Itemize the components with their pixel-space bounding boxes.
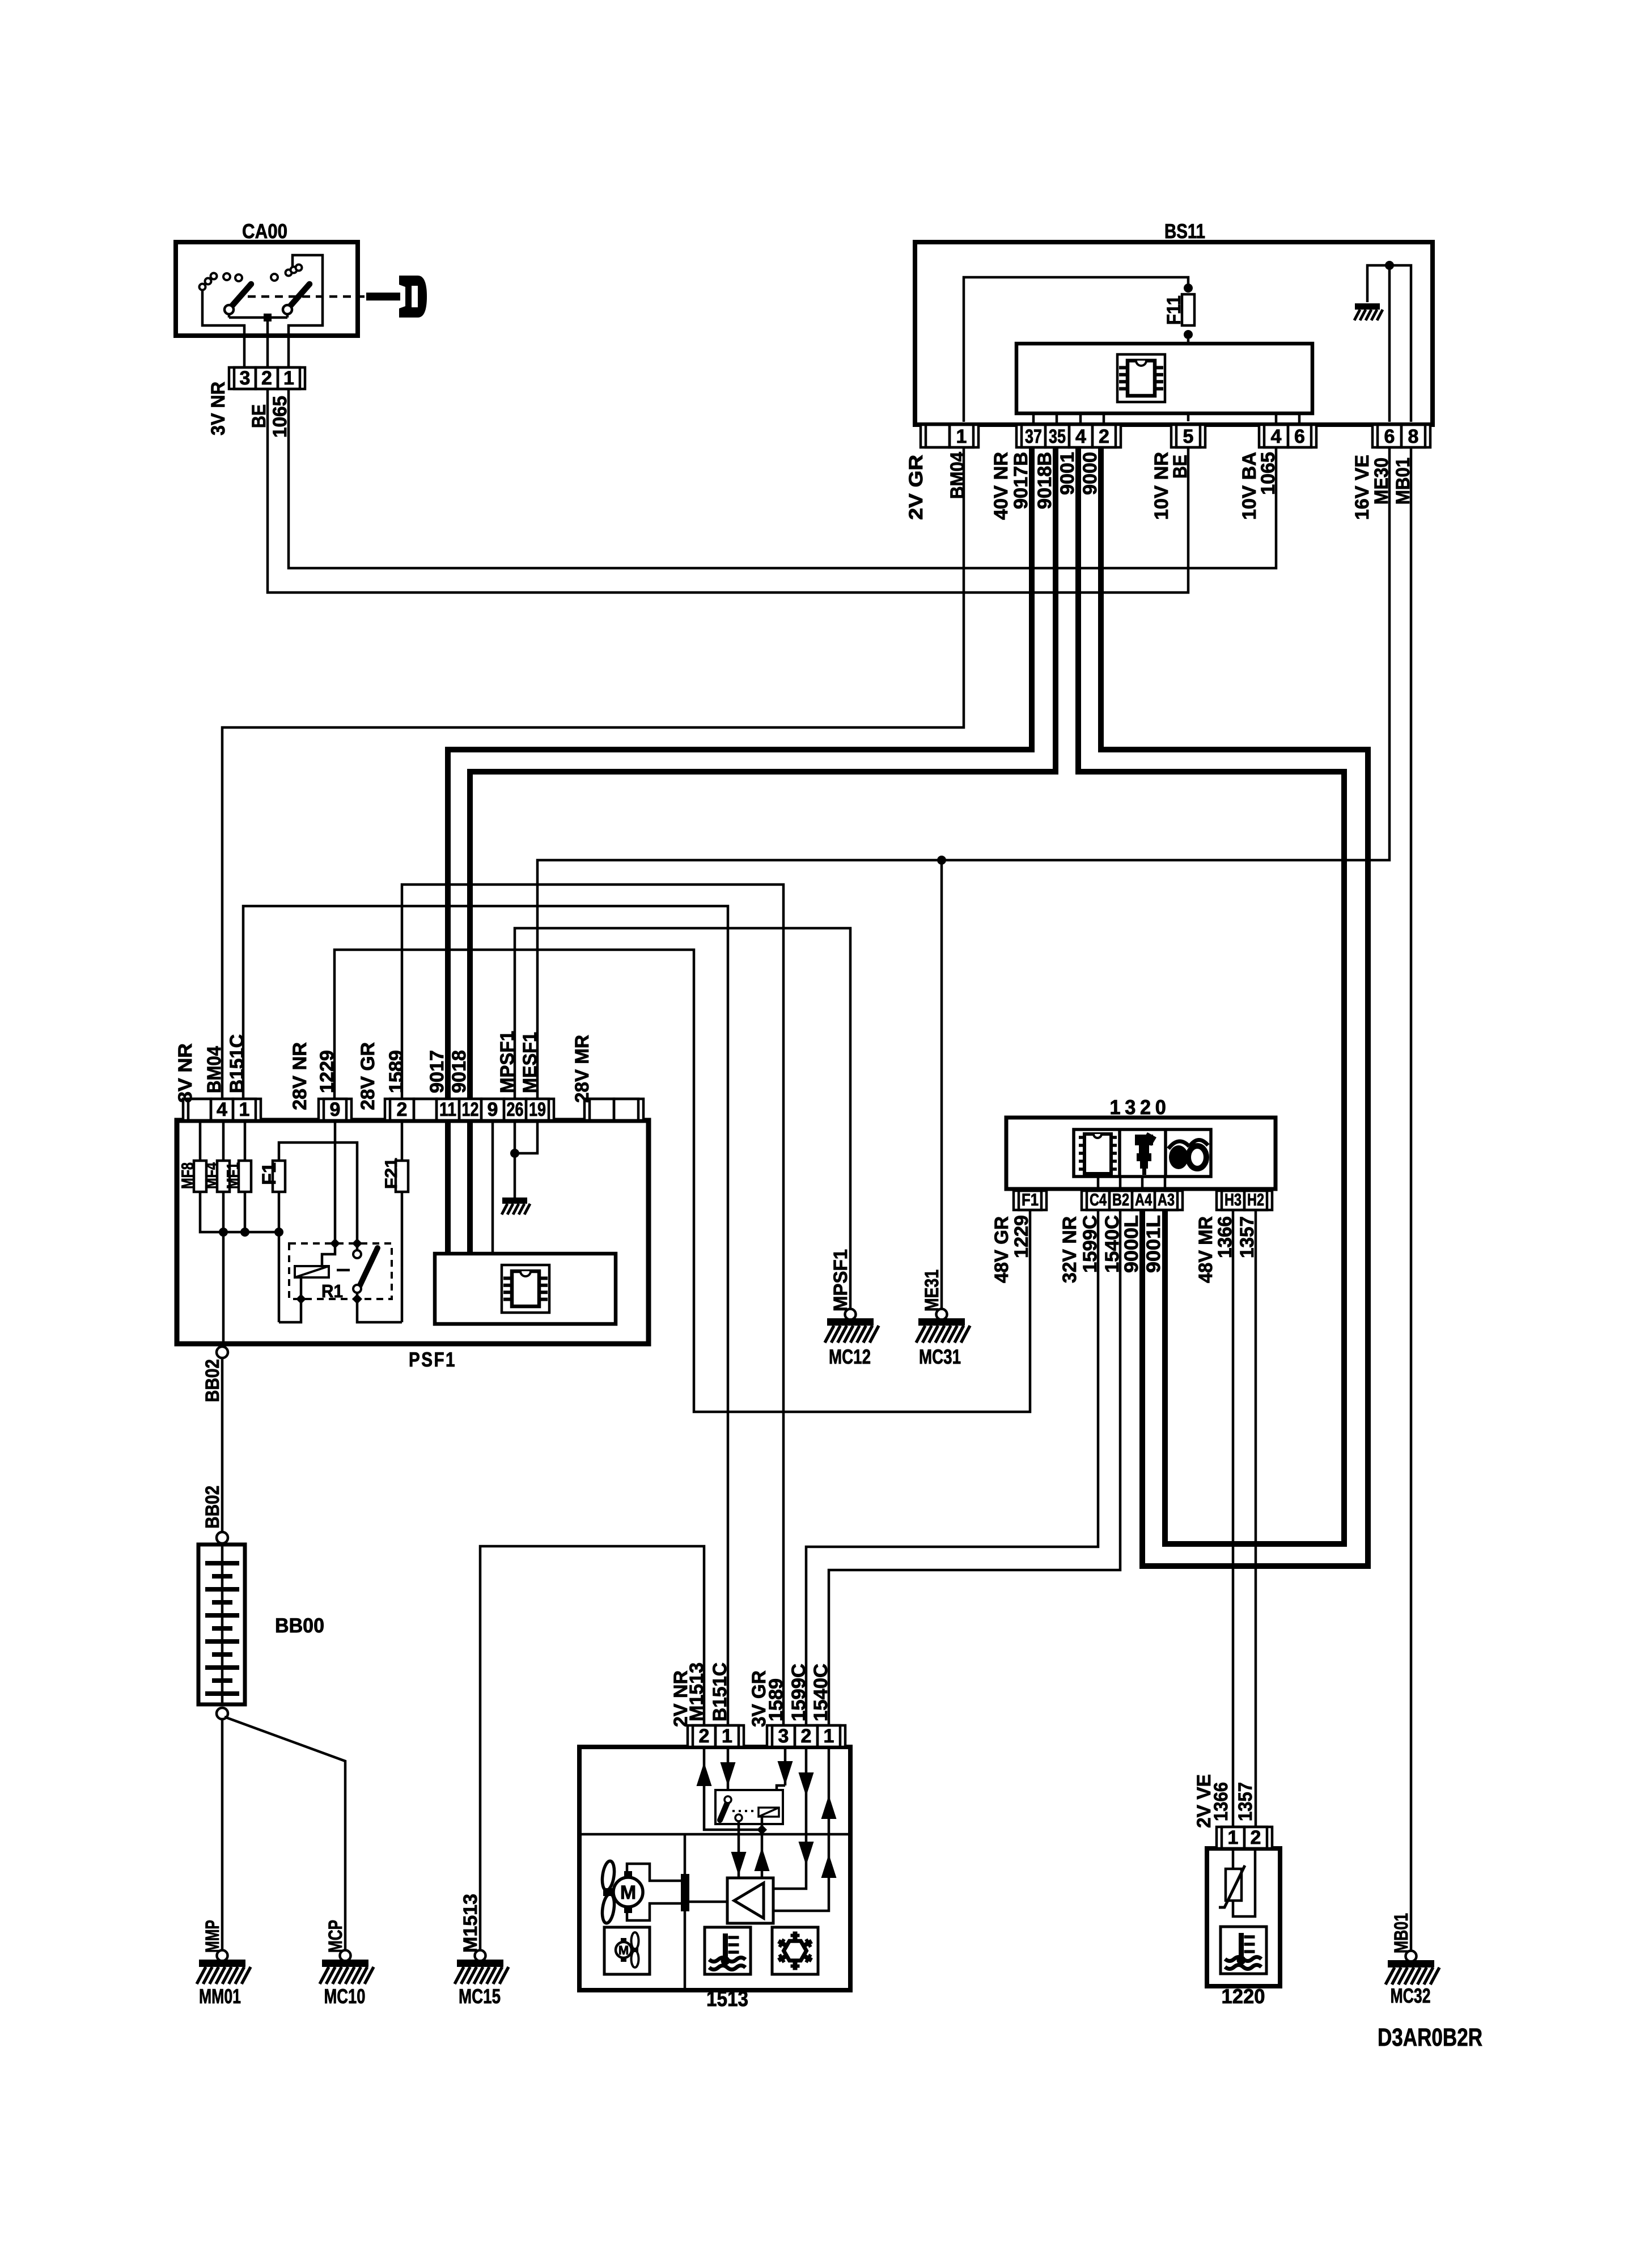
svg-text:F11: F11 bbox=[1163, 295, 1185, 325]
PSF1 electronics module box bbox=[435, 1254, 616, 1324]
CA00 internal wire pin3 bbox=[202, 289, 244, 369]
battery cells bbox=[205, 1561, 239, 1696]
svg-text:1589: 1589 bbox=[765, 1678, 787, 1721]
svg-text:2: 2 bbox=[801, 1725, 812, 1747]
wire pin 9b into module bbox=[491, 1120, 494, 1254]
wire MB01 from BS11 pin 8 to ground MC32 bbox=[1410, 445, 1413, 1951]
wire 1366 from 1320 pin H3 to 1220 pin 1 bbox=[1232, 1207, 1235, 1830]
svg-text:8V NR: 8V NR bbox=[175, 1043, 196, 1103]
svg-text:1: 1 bbox=[956, 426, 967, 447]
connector pins 1513 B bbox=[767, 1725, 845, 1747]
connector pins CA00 bbox=[229, 367, 305, 389]
flow arrow up arrow M1513 bbox=[697, 1762, 712, 1786]
wire MESF1/ME30 from PSF1 pin 19 to BS11 pin 6 bbox=[537, 445, 1389, 1102]
CA00 contact chain left bbox=[200, 273, 243, 290]
wires pins 11 12 into module thick bbox=[445, 1120, 451, 1254]
fuse MF8 bbox=[194, 1160, 206, 1193]
svg-text:M: M bbox=[620, 1882, 636, 1903]
CA00 switch blade right bbox=[283, 284, 310, 314]
wire 1065 from CA00 pin 1 to BS11 pin 4 bbox=[289, 386, 1276, 568]
svg-text:9: 9 bbox=[330, 1099, 341, 1120]
svg-text:40V NR: 40V NR bbox=[990, 452, 1012, 520]
svg-text:A4: A4 bbox=[1135, 1191, 1152, 1209]
svg-text:2: 2 bbox=[1251, 1827, 1261, 1848]
junction bar bbox=[681, 1874, 689, 1911]
wire M1513 from 1513 pin 2 to ground MC15 bbox=[480, 1546, 704, 1950]
svg-text:ME31: ME31 bbox=[921, 1270, 943, 1311]
wire coil bottom to driver bbox=[761, 1817, 764, 1878]
ground MC10 bbox=[320, 1950, 374, 1984]
svg-text:H3: H3 bbox=[1224, 1191, 1242, 1209]
svg-text:MMP: MMP bbox=[202, 1920, 223, 1953]
svg-text:BB00: BB00 bbox=[275, 1614, 324, 1637]
wire 1229 from PSF1 pin 9 to 1320 pin F1 bbox=[334, 950, 1030, 1412]
connector pins BS11 E bbox=[1372, 425, 1430, 447]
svg-text:2: 2 bbox=[1099, 426, 1109, 447]
svg-text:MCP: MCP bbox=[325, 1920, 346, 1953]
svg-text:ME30: ME30 bbox=[1371, 458, 1392, 505]
svg-text:MB01: MB01 bbox=[1392, 458, 1414, 505]
svg-text:26: 26 bbox=[507, 1099, 524, 1120]
wire 9000 thick from BS11 pin 2 to 1320 pin A4 bbox=[1101, 445, 1368, 1566]
svg-text:1: 1 bbox=[239, 1099, 250, 1120]
wire BM04 from BS11 pin 1 to PSF1 pin 4 bbox=[222, 445, 964, 1102]
wire F1 branch to relay contact bbox=[279, 1143, 357, 1250]
connector pins BS11 C bbox=[1171, 425, 1205, 447]
wire relay coil supply from pin 9 bbox=[322, 1120, 335, 1266]
wire relay switch output through F21 bbox=[357, 1120, 402, 1322]
driver triangle box bbox=[727, 1878, 773, 1923]
chip icon 1320 bbox=[1079, 1134, 1117, 1174]
svg-text:1: 1 bbox=[722, 1725, 732, 1747]
svg-text:1320: 1320 bbox=[1110, 1095, 1171, 1119]
svg-text:1: 1 bbox=[283, 367, 294, 389]
svg-text:MC31: MC31 bbox=[919, 1345, 961, 1368]
svg-text:1366: 1366 bbox=[1210, 1782, 1232, 1821]
svg-text:37: 37 bbox=[1025, 426, 1042, 447]
wire 1540C inside to driver bbox=[773, 1747, 829, 1911]
svg-text:2: 2 bbox=[261, 367, 272, 389]
svg-text:1599C: 1599C bbox=[1079, 1215, 1101, 1273]
labels 1220 top bbox=[1193, 1774, 1256, 1828]
wire MM01 from battery to ground MM01 bbox=[217, 1708, 228, 1719]
svg-text:2: 2 bbox=[397, 1099, 408, 1120]
svg-text:9000: 9000 bbox=[1079, 452, 1101, 495]
svg-text:1589: 1589 bbox=[385, 1050, 407, 1093]
svg-text:B2: B2 bbox=[1112, 1191, 1129, 1209]
svg-text:H2: H2 bbox=[1247, 1191, 1264, 1209]
wire 9001 thick from BS11 pin 4 to 1320 pin A3 bbox=[1078, 445, 1344, 1544]
injector icon 1320 bbox=[1135, 1132, 1156, 1175]
labels 1513 top bbox=[670, 1662, 832, 1727]
svg-text:1065: 1065 bbox=[1257, 452, 1279, 495]
CA00 key link dashed bbox=[248, 295, 366, 298]
thermistor 1220 bbox=[1219, 1848, 1255, 1916]
svg-text:MC10: MC10 bbox=[324, 1984, 366, 2008]
flow arrow up arrow coil bbox=[755, 1847, 770, 1871]
wire relay coil bottom to junction rail bbox=[279, 1232, 301, 1322]
svg-text:3: 3 bbox=[778, 1725, 789, 1747]
wire MPSF1 from PSF1 pin 26 to ground MC12 bbox=[515, 928, 850, 1309]
svg-text:28V MR: 28V MR bbox=[571, 1035, 593, 1103]
svg-text:5: 5 bbox=[1183, 426, 1194, 447]
svg-text:28V GR: 28V GR bbox=[357, 1042, 379, 1110]
wire 1540C from 1320 pin B2 to 1513 pin 1 bbox=[829, 1207, 1120, 1729]
connector pins 1220 bbox=[1217, 1827, 1272, 1848]
svg-text:4: 4 bbox=[1075, 426, 1086, 447]
svg-text:CA00: CA00 bbox=[242, 219, 287, 243]
connector pins PSF1 C bbox=[385, 1099, 554, 1120]
ground MC32 bbox=[1385, 1951, 1439, 1985]
svg-text:1540C: 1540C bbox=[1101, 1215, 1123, 1273]
fuse F11 terminals bbox=[1184, 283, 1193, 293]
component BB00 battery bbox=[198, 1545, 324, 1704]
svg-text:BE: BE bbox=[1170, 455, 1191, 479]
svg-text:28V NR: 28V NR bbox=[289, 1042, 311, 1110]
flow arrow down arrow B151C bbox=[721, 1762, 736, 1786]
svg-text:8: 8 bbox=[1408, 426, 1419, 447]
svg-text:9001: 9001 bbox=[1057, 452, 1078, 495]
svg-text:BM04: BM04 bbox=[204, 1046, 225, 1093]
wire 9017B thick from BS11 pin 37 to PSF1 pin 11 bbox=[448, 445, 1032, 1102]
flow arrow down arrow 1589 bbox=[778, 1761, 793, 1785]
icon snowflake air conditioning bbox=[772, 1927, 818, 1974]
1513 internal partitions bbox=[582, 1833, 848, 1836]
component CA00 ignition switch bbox=[176, 219, 358, 336]
connector pins 1320 A bbox=[1082, 1191, 1183, 1210]
fuse MF4 bbox=[217, 1160, 230, 1193]
connector pins PSF1 D bbox=[584, 1099, 643, 1120]
svg-text:1357: 1357 bbox=[1236, 1216, 1258, 1258]
connector pins 1513 A bbox=[688, 1725, 744, 1747]
svg-text:1540C: 1540C bbox=[810, 1664, 832, 1721]
wire relay contact to driver bbox=[738, 1821, 740, 1878]
wire ME31 branch to ground MC31 bbox=[940, 860, 943, 1309]
wire 1599C from 1320 pin C4 to 1513 pin 2 bbox=[806, 1207, 1098, 1729]
svg-text:B151C: B151C bbox=[709, 1662, 731, 1721]
flow arrow up arrow 1540C lower bbox=[821, 1854, 837, 1878]
ground MC15 bbox=[455, 1950, 509, 1984]
svg-text:1229: 1229 bbox=[1011, 1215, 1032, 1258]
chip icon BS11 U1 bbox=[1117, 354, 1165, 402]
svg-text:M: M bbox=[618, 1943, 629, 1957]
svg-text:D3AR0B2R: D3AR0B2R bbox=[1378, 2024, 1482, 2051]
svg-text:9018B: 9018B bbox=[1034, 452, 1056, 509]
CA00 internal wire pin1 loop bbox=[289, 255, 323, 369]
motor leads bbox=[627, 1864, 681, 1881]
svg-text:1065: 1065 bbox=[269, 396, 291, 438]
ignition coils icon 1320 bbox=[1168, 1140, 1208, 1169]
ground BS11 internal bbox=[1354, 303, 1383, 320]
wire 9018B thick from BS11 pin 35 to PSF1 pin 12 bbox=[470, 445, 1056, 1102]
wire BB02 from PSF1 to battery BB00 bbox=[221, 1344, 224, 1347]
wire MCP diagonal from battery to ground MC10 bbox=[224, 1717, 345, 1950]
connector pins BS11 A bbox=[921, 425, 978, 447]
svg-text:6: 6 bbox=[1294, 426, 1305, 447]
svg-text:3V NR: 3V NR bbox=[207, 382, 229, 435]
BS11 dashed wire F11 to pin 5 bbox=[1187, 339, 1190, 422]
svg-text:1599C: 1599C bbox=[788, 1664, 810, 1721]
connector pins BS11 D bbox=[1259, 425, 1316, 447]
ground MM01 bbox=[197, 1950, 251, 1984]
BS11 internal wire pin1 to F11 bbox=[964, 277, 1188, 422]
node ME junction bbox=[937, 856, 946, 865]
svg-text:BS11: BS11 bbox=[1164, 219, 1205, 243]
CA00 switch blade left bbox=[224, 284, 251, 314]
svg-text:1229: 1229 bbox=[316, 1050, 338, 1093]
svg-text:MF4: MF4 bbox=[202, 1162, 221, 1189]
svg-text:9000L: 9000L bbox=[1121, 1215, 1142, 1273]
wire bar to driver bbox=[689, 1901, 727, 1903]
flow arrow up arrow 1540C upper bbox=[821, 1795, 837, 1819]
svg-text:9017: 9017 bbox=[426, 1050, 448, 1093]
CA00 contact chain right bbox=[271, 265, 302, 281]
1320 inner stubs bbox=[1097, 1177, 1100, 1191]
svg-text:F21: F21 bbox=[382, 1158, 401, 1189]
svg-text:3: 3 bbox=[240, 367, 251, 389]
ground MC31 bbox=[916, 1309, 970, 1343]
wire 1589 from PSF1 pin 2 to 1513 pin 3 bbox=[402, 885, 783, 1729]
connector pins PSF1 A bbox=[183, 1099, 261, 1120]
fuse F1 bbox=[273, 1160, 285, 1193]
chip icon PSF1 U1 bbox=[502, 1265, 549, 1313]
icon coolant temperature 1220 bbox=[1221, 1927, 1266, 1974]
wire B151C inside to relay blade bbox=[727, 1747, 730, 1796]
svg-text:2: 2 bbox=[699, 1725, 710, 1747]
svg-text:11: 11 bbox=[439, 1099, 456, 1120]
svg-text:MC15: MC15 bbox=[459, 1984, 501, 2008]
BS11 inner module box bbox=[1016, 344, 1312, 413]
svg-text:4: 4 bbox=[1271, 426, 1282, 447]
svg-text:6: 6 bbox=[1384, 426, 1395, 447]
labels BS11 bottom bbox=[905, 452, 1414, 520]
wire 1589 inside to relay coil bbox=[777, 1747, 785, 1808]
icon fan motor 1513 M1 bbox=[600, 1860, 643, 1924]
svg-text:1366: 1366 bbox=[1214, 1216, 1236, 1258]
wire M1513 inside to relay coil rail bbox=[704, 1747, 762, 1830]
svg-text:1357: 1357 bbox=[1235, 1782, 1256, 1821]
wire 1599C inside to driver bbox=[773, 1747, 806, 1889]
component PSF1 engine fusebox bbox=[177, 1120, 649, 1371]
svg-text:19: 19 bbox=[529, 1099, 546, 1120]
svg-text:MB01: MB01 bbox=[1391, 1913, 1412, 1953]
connector pins BS11 B bbox=[1016, 425, 1121, 447]
svg-text:2V GR: 2V GR bbox=[905, 455, 927, 520]
svg-text:MF1: MF1 bbox=[224, 1162, 243, 1189]
svg-text:4: 4 bbox=[217, 1099, 227, 1120]
svg-text:A3: A3 bbox=[1158, 1191, 1175, 1209]
svg-text:1: 1 bbox=[824, 1725, 834, 1747]
component 1220 coolant temperature sensor bbox=[1207, 1848, 1280, 2008]
svg-text:48V GR: 48V GR bbox=[991, 1216, 1012, 1283]
flow arrow down arrow 1599C lower bbox=[799, 1842, 814, 1865]
BS11 internal ground wire bbox=[1367, 265, 1411, 422]
svg-text:MESF1: MESF1 bbox=[519, 1032, 541, 1093]
svg-text:MC32: MC32 bbox=[1391, 1984, 1431, 2007]
component BS11 built-in systems interface bbox=[915, 219, 1433, 425]
fuse F21 bbox=[396, 1160, 408, 1193]
svg-text:BE: BE bbox=[248, 404, 270, 428]
svg-text:R1: R1 bbox=[321, 1281, 343, 1301]
ground MC12 bbox=[825, 1309, 879, 1343]
svg-text:PSF1: PSF1 bbox=[409, 1348, 456, 1371]
icon box fan motor small bbox=[604, 1927, 650, 1974]
component 1320 engine ECU bbox=[1006, 1095, 1276, 1189]
svg-text:9: 9 bbox=[488, 1099, 498, 1120]
svg-text:MM01: MM01 bbox=[199, 1984, 241, 2008]
relay R1 bbox=[289, 1238, 392, 1304]
BS11 inner module stubs bbox=[1032, 413, 1035, 425]
svg-text:MC12: MC12 bbox=[829, 1345, 871, 1368]
icon coolant temperature 1513 bbox=[705, 1927, 751, 1974]
svg-text:9017B: 9017B bbox=[1010, 452, 1032, 509]
relay 1513 internal bbox=[715, 1790, 783, 1824]
wire BE from CA00 pin 2 to BS11 pin 5 bbox=[268, 386, 1188, 593]
labels 1320 bottom bbox=[991, 1215, 1258, 1283]
svg-text:BB02: BB02 bbox=[202, 1486, 223, 1529]
ground PSF1 internal bbox=[502, 1198, 530, 1215]
connector pins PSF1 B bbox=[319, 1099, 351, 1120]
wire 1357 from 1320 pin H2 to 1220 pin 2 bbox=[1255, 1207, 1257, 1830]
icon fan motor small 1513 bbox=[616, 1932, 639, 1967]
CA00 key symbol bbox=[366, 276, 427, 318]
connector pins 1320 B bbox=[1217, 1191, 1272, 1210]
svg-text:B151C: B151C bbox=[226, 1034, 248, 1093]
1320 inner module box bbox=[1074, 1129, 1211, 1177]
svg-text:9018: 9018 bbox=[448, 1050, 470, 1093]
CA00 internal wire pin2 with junction bbox=[229, 314, 287, 369]
svg-text:M1513: M1513 bbox=[686, 1662, 707, 1721]
flow arrow down arrow 1599C upper bbox=[799, 1772, 814, 1796]
wire B151C from PSF1 pin 1 to 1513 pin 1 bbox=[243, 906, 728, 1729]
fuse MF1 bbox=[239, 1160, 251, 1193]
svg-text:C4: C4 bbox=[1090, 1191, 1107, 1209]
svg-text:MPSF1: MPSF1 bbox=[497, 1031, 518, 1093]
flow arrow down arrow contact bbox=[731, 1852, 747, 1876]
svg-text:MPSF1: MPSF1 bbox=[830, 1249, 851, 1311]
fuse F11 bbox=[1182, 293, 1194, 327]
svg-text:F1: F1 bbox=[259, 1162, 280, 1185]
svg-text:1: 1 bbox=[1228, 1827, 1239, 1848]
svg-text:BB02: BB02 bbox=[202, 1359, 223, 1402]
svg-text:BM04: BM04 bbox=[947, 452, 968, 499]
svg-text:32V NR: 32V NR bbox=[1059, 1216, 1081, 1283]
svg-text:48V MR: 48V MR bbox=[1195, 1216, 1217, 1283]
connector pins 1320 F1 bbox=[1014, 1191, 1046, 1210]
component 1513 engine cooling fan unit bbox=[579, 1747, 850, 2011]
svg-text:9001L: 9001L bbox=[1143, 1215, 1164, 1273]
svg-text:12: 12 bbox=[462, 1099, 479, 1120]
svg-text:F1: F1 bbox=[1022, 1191, 1039, 1209]
PSF1 internal feed wires through fuses bbox=[200, 1120, 279, 1344]
svg-text:35: 35 bbox=[1049, 426, 1066, 447]
PSF1 internal ground from pins 26 19 bbox=[515, 1120, 537, 1198]
svg-text:16V VE: 16V VE bbox=[1351, 455, 1373, 520]
svg-text:MF8: MF8 bbox=[179, 1162, 197, 1189]
svg-text:M1513: M1513 bbox=[460, 1894, 481, 1953]
labels PSF1 top bbox=[175, 1031, 593, 1110]
